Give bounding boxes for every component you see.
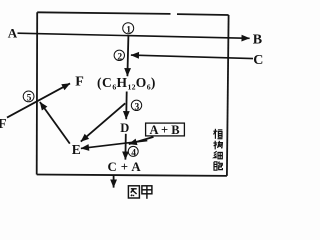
glucose formula (C6H12O6): [97, 75, 156, 91]
label C + A: [108, 160, 142, 174]
svg-text:3: 3: [135, 102, 140, 112]
svg-text:1: 1: [126, 25, 131, 35]
wire A to B: [18, 33, 250, 38]
svg-text:2: 2: [117, 52, 122, 62]
svg-text:A: A: [8, 25, 18, 40]
wire C (right to left): [131, 55, 253, 59]
svg-text:C + A: C + A: [108, 160, 142, 174]
svg-text:4: 4: [131, 148, 136, 158]
arrow A+B to E: [81, 141, 147, 149]
box A+B: [146, 123, 185, 137]
vertical text bao (胞): [214, 162, 222, 171]
arrow glucose to E (diagonal): [81, 103, 125, 141]
label D: [120, 121, 129, 135]
label E: [72, 142, 81, 157]
node 4 (circled): [128, 146, 138, 158]
vertical text xi (细): [214, 151, 223, 159]
arrow 4 D down to C+A: [124, 134, 126, 160]
wire F diagonal through cell wall: [7, 83, 70, 117]
label F lower: [0, 117, 7, 132]
svg-text:D: D: [120, 121, 129, 135]
node 5 (circled): [23, 91, 34, 104]
node 3 (circled): [131, 100, 141, 112]
svg-text:5: 5: [27, 94, 32, 104]
caption tu (图): [128, 186, 139, 198]
plant cell border: [37, 12, 229, 176]
arrow C+A out of cell: [113, 175, 115, 188]
vertical text zhi (植): [213, 129, 222, 139]
label B: [253, 32, 262, 47]
label A: [8, 25, 18, 40]
label F upper: [75, 75, 84, 90]
svg-text:C: C: [253, 53, 263, 68]
caption jia (甲): [142, 186, 152, 199]
node 1 (circled): [123, 23, 134, 36]
svg-text:F: F: [0, 117, 7, 132]
svg-text:E: E: [72, 142, 81, 157]
arrow E up to node 5: [40, 102, 70, 144]
label C: [253, 53, 263, 68]
svg-text:F: F: [75, 75, 84, 90]
svg-text:A + B: A + B: [150, 123, 180, 137]
svg-text:B: B: [253, 32, 262, 47]
node 2 (circled): [114, 50, 124, 62]
vertical text wu (物): [213, 141, 222, 150]
arrow A+B box to node 4 line: [129, 137, 154, 144]
arrow 1 down to glucose: [126, 36, 129, 76]
arrow 3 glucose down to D: [125, 92, 128, 120]
